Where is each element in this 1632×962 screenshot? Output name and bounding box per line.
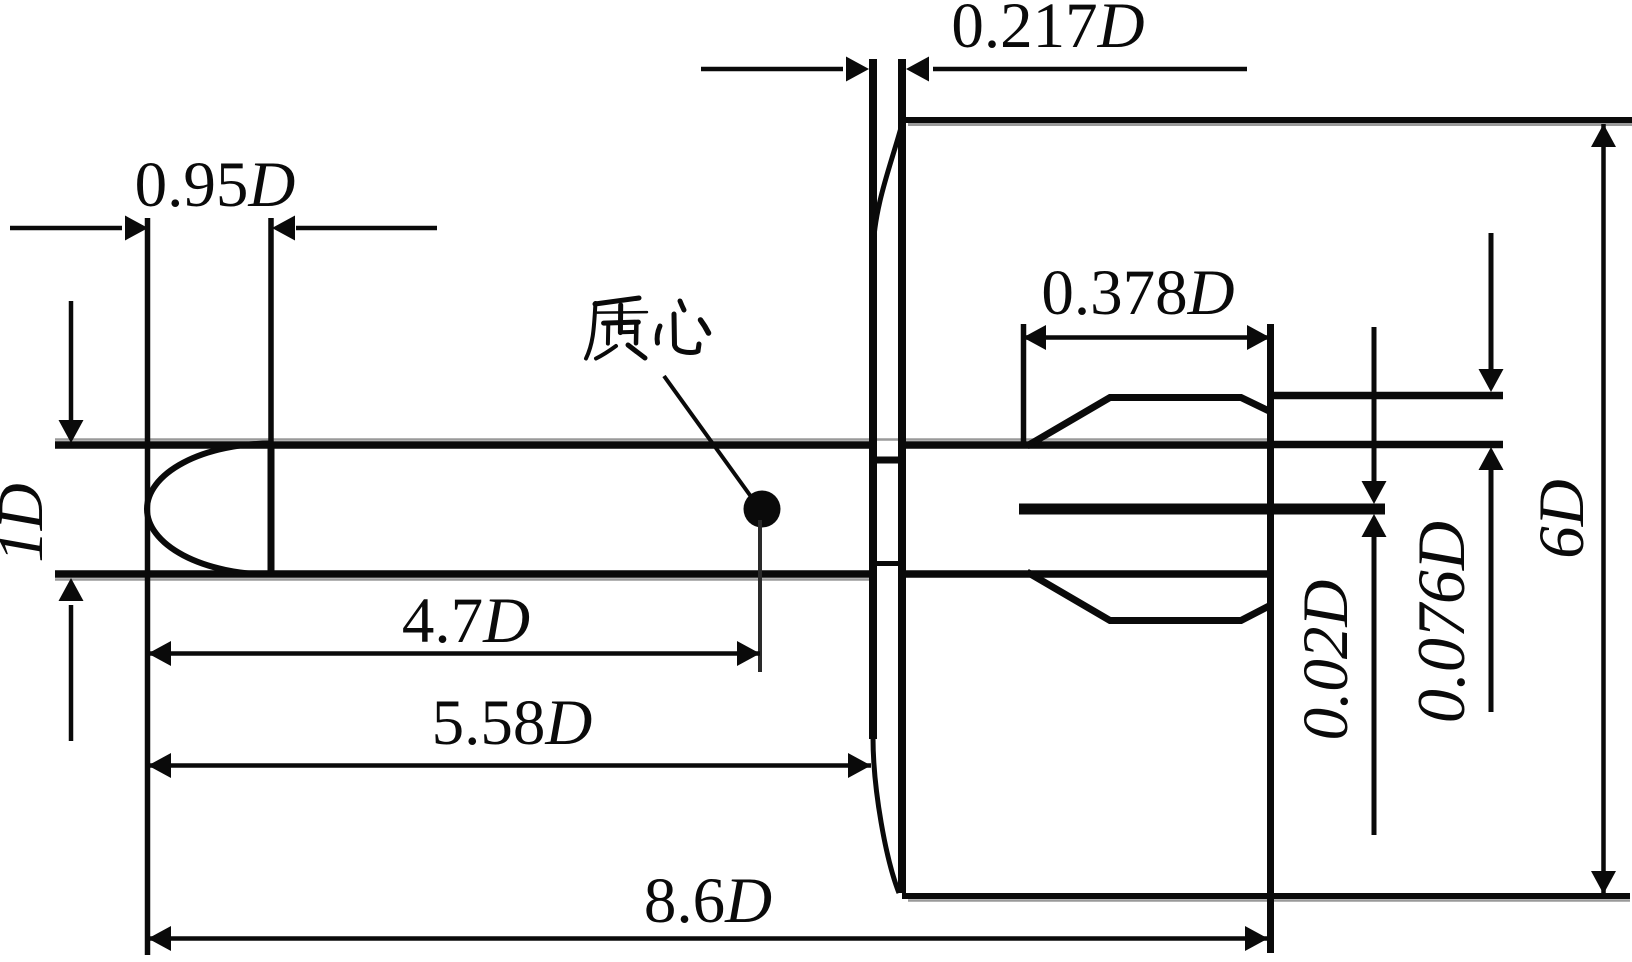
dim 0.076D upper line — [1489, 233, 1494, 369]
svg-text:6D: 6D — [1526, 479, 1598, 558]
svg-text:0.378D: 0.378D — [1041, 257, 1234, 329]
dim 0.95D line left part — [10, 226, 122, 231]
gray halo below body bottom line — [55, 578, 870, 581]
dim 0.217D arrow left-pointing — [906, 57, 929, 82]
svg-text:4.7D: 4.7D — [402, 585, 530, 657]
dim 4.7D line — [147, 651, 760, 656]
dim 0.217D line right part — [933, 67, 1247, 72]
zhi right leg — [628, 345, 645, 358]
body top extension to right — [1274, 441, 1503, 449]
zhi top horizontal — [595, 298, 639, 304]
fin right edge / long extension line — [1267, 324, 1274, 953]
dim 1D lower arrow up — [59, 578, 84, 601]
svg-text:0.076D: 0.076D — [1403, 521, 1479, 723]
gray halo below big-cylinder top edge — [908, 123, 1632, 126]
svg-text:1D: 1D — [0, 483, 57, 562]
dim 5.58D line — [147, 763, 871, 768]
dim 0.217D arrow right-pointing — [846, 57, 869, 82]
fin-top extension line to right — [1271, 392, 1503, 400]
dim 0.95D line right part — [296, 226, 437, 231]
slot line — [1019, 504, 1385, 515]
dim 8.6D arrow right tip — [1245, 926, 1268, 951]
mass center dot — [744, 491, 781, 528]
extension line x=1023 — [1021, 324, 1027, 443]
gray halo below big-cylinder bottom edge — [908, 899, 1630, 902]
zhi box right vertical — [634, 323, 639, 344]
svg-text:0.02D: 0.02D — [1290, 580, 1362, 741]
upper fin plate outline — [1027, 398, 1269, 447]
disc inner segment upper — [869, 457, 906, 464]
flare disc right face — [898, 59, 906, 893]
dim 0.076D arrow up tip — [1479, 447, 1504, 470]
dim 8.6D line — [147, 936, 1268, 941]
dim 0.217D line left part — [701, 67, 843, 72]
nose half-ellipse arc — [147, 444, 271, 575]
body top line left segment — [55, 441, 870, 449]
disc bottom curve — [873, 737, 899, 893]
dim 6D arrow up tip — [1591, 124, 1616, 147]
lower fin plate outline — [1027, 572, 1269, 621]
zhi first vertical — [618, 305, 623, 333]
leader line to mass center — [664, 376, 752, 498]
zhi left leg — [596, 346, 616, 359]
zhi box left vertical — [606, 324, 610, 344]
dim 0.02D arrow up tip — [1362, 514, 1387, 537]
zhi thin horizontal — [597, 311, 647, 314]
dim 1D upper line — [69, 301, 74, 421]
big cylinder top edge — [902, 117, 1632, 123]
xin right dot — [701, 320, 709, 333]
dim 0.378D arrow right tip — [1247, 325, 1270, 350]
dim 0.02D lower line — [1372, 537, 1377, 835]
dim 4.7D arrow left tip — [148, 641, 171, 666]
disc top curve — [873, 124, 902, 252]
dim 8.6D arrow left tip — [148, 926, 171, 951]
dim 0.076D arrow down tip — [1479, 369, 1504, 392]
dim 0.02D arrow down tip — [1362, 481, 1387, 504]
dim 1D lower line — [69, 605, 74, 741]
dim 6D line — [1601, 124, 1606, 894]
zhi inner horizontal — [621, 330, 637, 334]
nose junction vertical line — [268, 443, 275, 578]
dim 0.076D lower line — [1489, 470, 1494, 712]
disc inner segment lower — [869, 561, 906, 566]
gray halo above body top line — [55, 438, 1274, 441]
dim 1D upper arrow down — [59, 420, 84, 443]
dim 0.378D line — [1023, 335, 1270, 340]
dim 6D arrow down tip — [1591, 871, 1616, 894]
label zhi-xin (mass center) hand-drawn glyphs — [586, 298, 709, 359]
dim 0.95D arrow right-pointing — [125, 216, 148, 241]
dim 5.58D arrow right tip — [848, 753, 871, 778]
svg-text:0.95D: 0.95D — [135, 149, 296, 221]
body bottom line right segment — [901, 570, 1274, 578]
xin left dot — [657, 326, 660, 343]
svg-text:0.217D: 0.217D — [951, 0, 1144, 62]
flare disc left face — [869, 59, 877, 739]
body top line right segment — [901, 441, 1274, 449]
extension line x=147 full height — [145, 218, 151, 955]
dim 0.95D arrow left-pointing — [272, 216, 295, 241]
zhi middle horizontal — [604, 322, 639, 323]
svg-text:8.6D: 8.6D — [644, 865, 772, 937]
big cylinder bottom edge — [902, 893, 1630, 899]
svg-text:5.58D: 5.58D — [432, 687, 593, 759]
body bottom line left segment — [55, 570, 870, 578]
xin hook stroke — [674, 314, 699, 353]
dim 0.378D arrow left tip — [1023, 325, 1046, 350]
dim 0.02D upper line — [1372, 327, 1377, 481]
extension line x=271 upper — [268, 218, 274, 443]
dim 5.58D arrow left tip — [148, 753, 171, 778]
zhi left falling stroke — [586, 303, 596, 359]
dim 4.7D arrow right tip — [737, 641, 760, 666]
xin middle dot — [680, 301, 684, 310]
mass center stem line — [758, 520, 762, 672]
